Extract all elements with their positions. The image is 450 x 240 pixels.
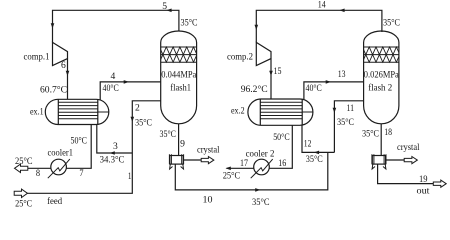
svg-text:2: 2 bbox=[135, 103, 140, 114]
ex.1 tubes bbox=[58, 102, 98, 119]
compressor comp.1 bbox=[53, 42, 68, 65]
wire stream 6 bbox=[67, 59, 69, 100]
svg-text:feed: feed bbox=[47, 196, 62, 207]
ex.1 tube sheet right bbox=[97, 99, 99, 124]
wire crystal 1 outlet bbox=[184, 159, 202, 161]
arrowhead stream 15 down bbox=[269, 71, 273, 76]
ex.2 tubes bbox=[260, 102, 302, 119]
svg-text:14: 14 bbox=[318, 0, 326, 11]
wire stream 3 bbox=[97, 124, 133, 153]
arrowhead stream 2 down bbox=[131, 117, 135, 122]
arrowhead stream 5 left bbox=[166, 9, 171, 13]
wire ex.2 condensate stream 16 bbox=[269, 125, 292, 168]
flash drum flash1 bbox=[161, 31, 197, 124]
svg-text:25°C: 25°C bbox=[15, 156, 33, 167]
svg-text:0.026MPa: 0.026MPa bbox=[364, 70, 400, 81]
svg-text:16: 16 bbox=[278, 158, 286, 169]
svg-text:50°C: 50°C bbox=[71, 136, 88, 147]
svg-text:crystal: crystal bbox=[397, 142, 420, 153]
svg-text:4: 4 bbox=[111, 71, 116, 82]
open arrow crystal 2 bbox=[404, 157, 417, 164]
arrowhead stream 13 right bbox=[326, 80, 331, 84]
arrowhead stream 4 right bbox=[124, 80, 129, 84]
crystal separator 2 feet bbox=[372, 164, 386, 169]
svg-text:6: 6 bbox=[61, 60, 66, 71]
svg-text:35°C: 35°C bbox=[160, 129, 177, 140]
svg-text:18: 18 bbox=[384, 127, 392, 138]
arrowhead stream 12 left bbox=[314, 151, 319, 155]
open arrow stream 8 out bbox=[15, 164, 28, 172]
svg-text:11: 11 bbox=[347, 103, 355, 114]
wire ex.1 condensate to cooler bbox=[66, 124, 91, 168]
open arrow feed in bbox=[14, 189, 27, 197]
ex.2 tube sheet left bbox=[259, 99, 261, 125]
ex.2 tube sheet right bbox=[301, 99, 303, 125]
compressor comp.2 bbox=[256, 42, 271, 65]
svg-text:25°C: 25°C bbox=[223, 171, 241, 182]
svg-text:25°C: 25°C bbox=[15, 199, 32, 210]
svg-text:out: out bbox=[417, 185, 430, 196]
wire stream 14 top bbox=[256, 10, 382, 42]
svg-text:40°C: 40°C bbox=[103, 83, 119, 94]
heat exchanger ex.2 shell bbox=[248, 99, 313, 125]
crystal separator 2 box bbox=[372, 156, 385, 165]
svg-text:ex.1: ex.1 bbox=[30, 107, 44, 118]
svg-text:9: 9 bbox=[180, 138, 185, 149]
svg-text:12: 12 bbox=[304, 138, 312, 149]
svg-text:35°C: 35°C bbox=[306, 154, 323, 165]
svg-text:ex.2: ex.2 bbox=[231, 106, 245, 117]
wire stream 4 bbox=[100, 82, 161, 100]
svg-text:40°C: 40°C bbox=[306, 83, 322, 94]
wire stream 19 bbox=[378, 164, 433, 184]
flash2 demister mesh row1 bbox=[364, 47, 399, 62]
svg-text:crystal: crystal bbox=[197, 145, 220, 156]
arrowhead stream 14 down bbox=[255, 25, 259, 30]
wire stream 12 bbox=[302, 125, 334, 152]
svg-text:35°C: 35°C bbox=[362, 129, 379, 140]
svg-text:35°C: 35°C bbox=[383, 18, 400, 29]
wire stream 5 top bbox=[53, 10, 179, 42]
svg-text:17: 17 bbox=[240, 158, 248, 169]
flash1 demister boundaries bbox=[161, 47, 197, 62]
svg-text:5: 5 bbox=[162, 1, 167, 12]
crystal separator 1 box bbox=[170, 156, 184, 165]
wire stream 13 bbox=[304, 82, 364, 100]
svg-text:10: 10 bbox=[203, 195, 213, 206]
svg-text:comp.1: comp.1 bbox=[24, 52, 50, 63]
svg-text:35°C: 35°C bbox=[135, 118, 152, 129]
arrowhead stream 10 right bbox=[255, 188, 260, 192]
wire stream 2 bbox=[132, 101, 160, 153]
wire stream 9 bbox=[178, 124, 180, 156]
arrowhead stream 6 down bbox=[66, 71, 70, 76]
wire stream 10 bbox=[175, 152, 327, 190]
svg-text:35°C: 35°C bbox=[337, 117, 354, 128]
flash drum flash2 bbox=[364, 31, 399, 124]
svg-text:60.7°C: 60.7°C bbox=[40, 85, 67, 96]
svg-text:1: 1 bbox=[128, 171, 132, 182]
open arrow stream 19 out bbox=[433, 180, 446, 187]
flash2 demister mesh row2 bbox=[364, 47, 399, 62]
crystal separator 1 feet bbox=[170, 164, 184, 169]
svg-text:34.3°C: 34.3°C bbox=[100, 155, 125, 166]
svg-text:cooler1: cooler1 bbox=[48, 148, 74, 159]
svg-text:8: 8 bbox=[36, 168, 40, 179]
crystal separator 2 posts bbox=[372, 154, 386, 164]
ex.1 head partition bbox=[98, 111, 109, 113]
wire crystal 2 outlet bbox=[386, 159, 405, 161]
svg-text:35°C: 35°C bbox=[181, 18, 198, 29]
arrowhead stream 14 left bbox=[339, 9, 344, 13]
arrowhead stream 5 down bbox=[51, 23, 55, 28]
cooler1 zigzag bbox=[48, 159, 70, 178]
cooler2 zigzag bbox=[251, 159, 273, 178]
cooler2 circle bbox=[254, 159, 270, 175]
open arrow crystal 1 bbox=[201, 157, 214, 164]
wire stream 8 bbox=[28, 167, 51, 169]
flash2 demister boundaries bbox=[364, 47, 399, 62]
flash1 demister mesh row2 bbox=[161, 47, 197, 62]
svg-text:flash1: flash1 bbox=[170, 83, 191, 94]
arrowhead stream 3 left bbox=[110, 151, 115, 155]
svg-text:7: 7 bbox=[79, 168, 83, 179]
svg-text:19: 19 bbox=[419, 174, 428, 185]
flash1 demister mesh row1 bbox=[161, 47, 197, 62]
svg-text:0.044MPa: 0.044MPa bbox=[161, 70, 197, 81]
arrowhead stream 11 down bbox=[333, 108, 337, 113]
svg-text:comp.2: comp.2 bbox=[227, 52, 253, 63]
svg-text:13: 13 bbox=[338, 69, 346, 80]
svg-text:15: 15 bbox=[274, 66, 282, 77]
svg-text:flash 2: flash 2 bbox=[368, 83, 392, 94]
arrowhead stream 17 left bbox=[226, 167, 231, 171]
svg-text:96.2°C: 96.2°C bbox=[241, 84, 268, 95]
svg-text:35°C: 35°C bbox=[252, 197, 270, 208]
svg-text:cooler 2: cooler 2 bbox=[246, 149, 275, 160]
ex.2 head partition bbox=[302, 111, 313, 113]
heat exchanger ex.1 shell bbox=[45, 99, 109, 124]
svg-text:3: 3 bbox=[113, 141, 118, 152]
wire stream 18 bbox=[380, 124, 382, 156]
cooler1 circle bbox=[51, 159, 67, 175]
wire stream 15 bbox=[270, 59, 272, 100]
crystal separator 1 posts bbox=[169, 154, 183, 164]
wire stream 17 bbox=[227, 167, 254, 169]
wire stream 1 feed line bbox=[28, 153, 133, 193]
svg-text:50°C: 50°C bbox=[273, 132, 290, 143]
wire stream 11 bbox=[334, 101, 363, 153]
ex.1 tube sheet left bbox=[57, 99, 59, 124]
